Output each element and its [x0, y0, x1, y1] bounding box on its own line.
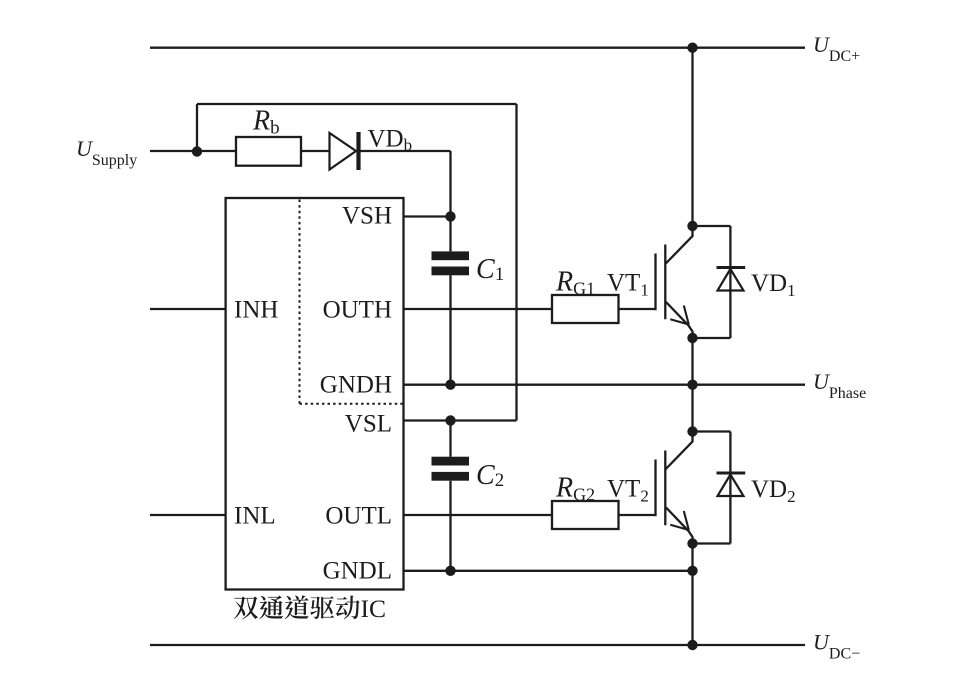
svg-text:INH: INH — [234, 297, 278, 324]
svg-text:IC: IC — [361, 594, 387, 623]
svg-text:GNDH: GNDH — [320, 372, 392, 399]
svg-text:OUTH: OUTH — [323, 297, 392, 324]
svg-text:VSL: VSL — [345, 411, 392, 438]
svg-text:OUTL: OUTL — [325, 503, 392, 530]
svg-text:GNDL: GNDL — [323, 558, 392, 585]
svg-text:VSH: VSH — [342, 203, 392, 230]
svg-text:INL: INL — [234, 503, 276, 530]
